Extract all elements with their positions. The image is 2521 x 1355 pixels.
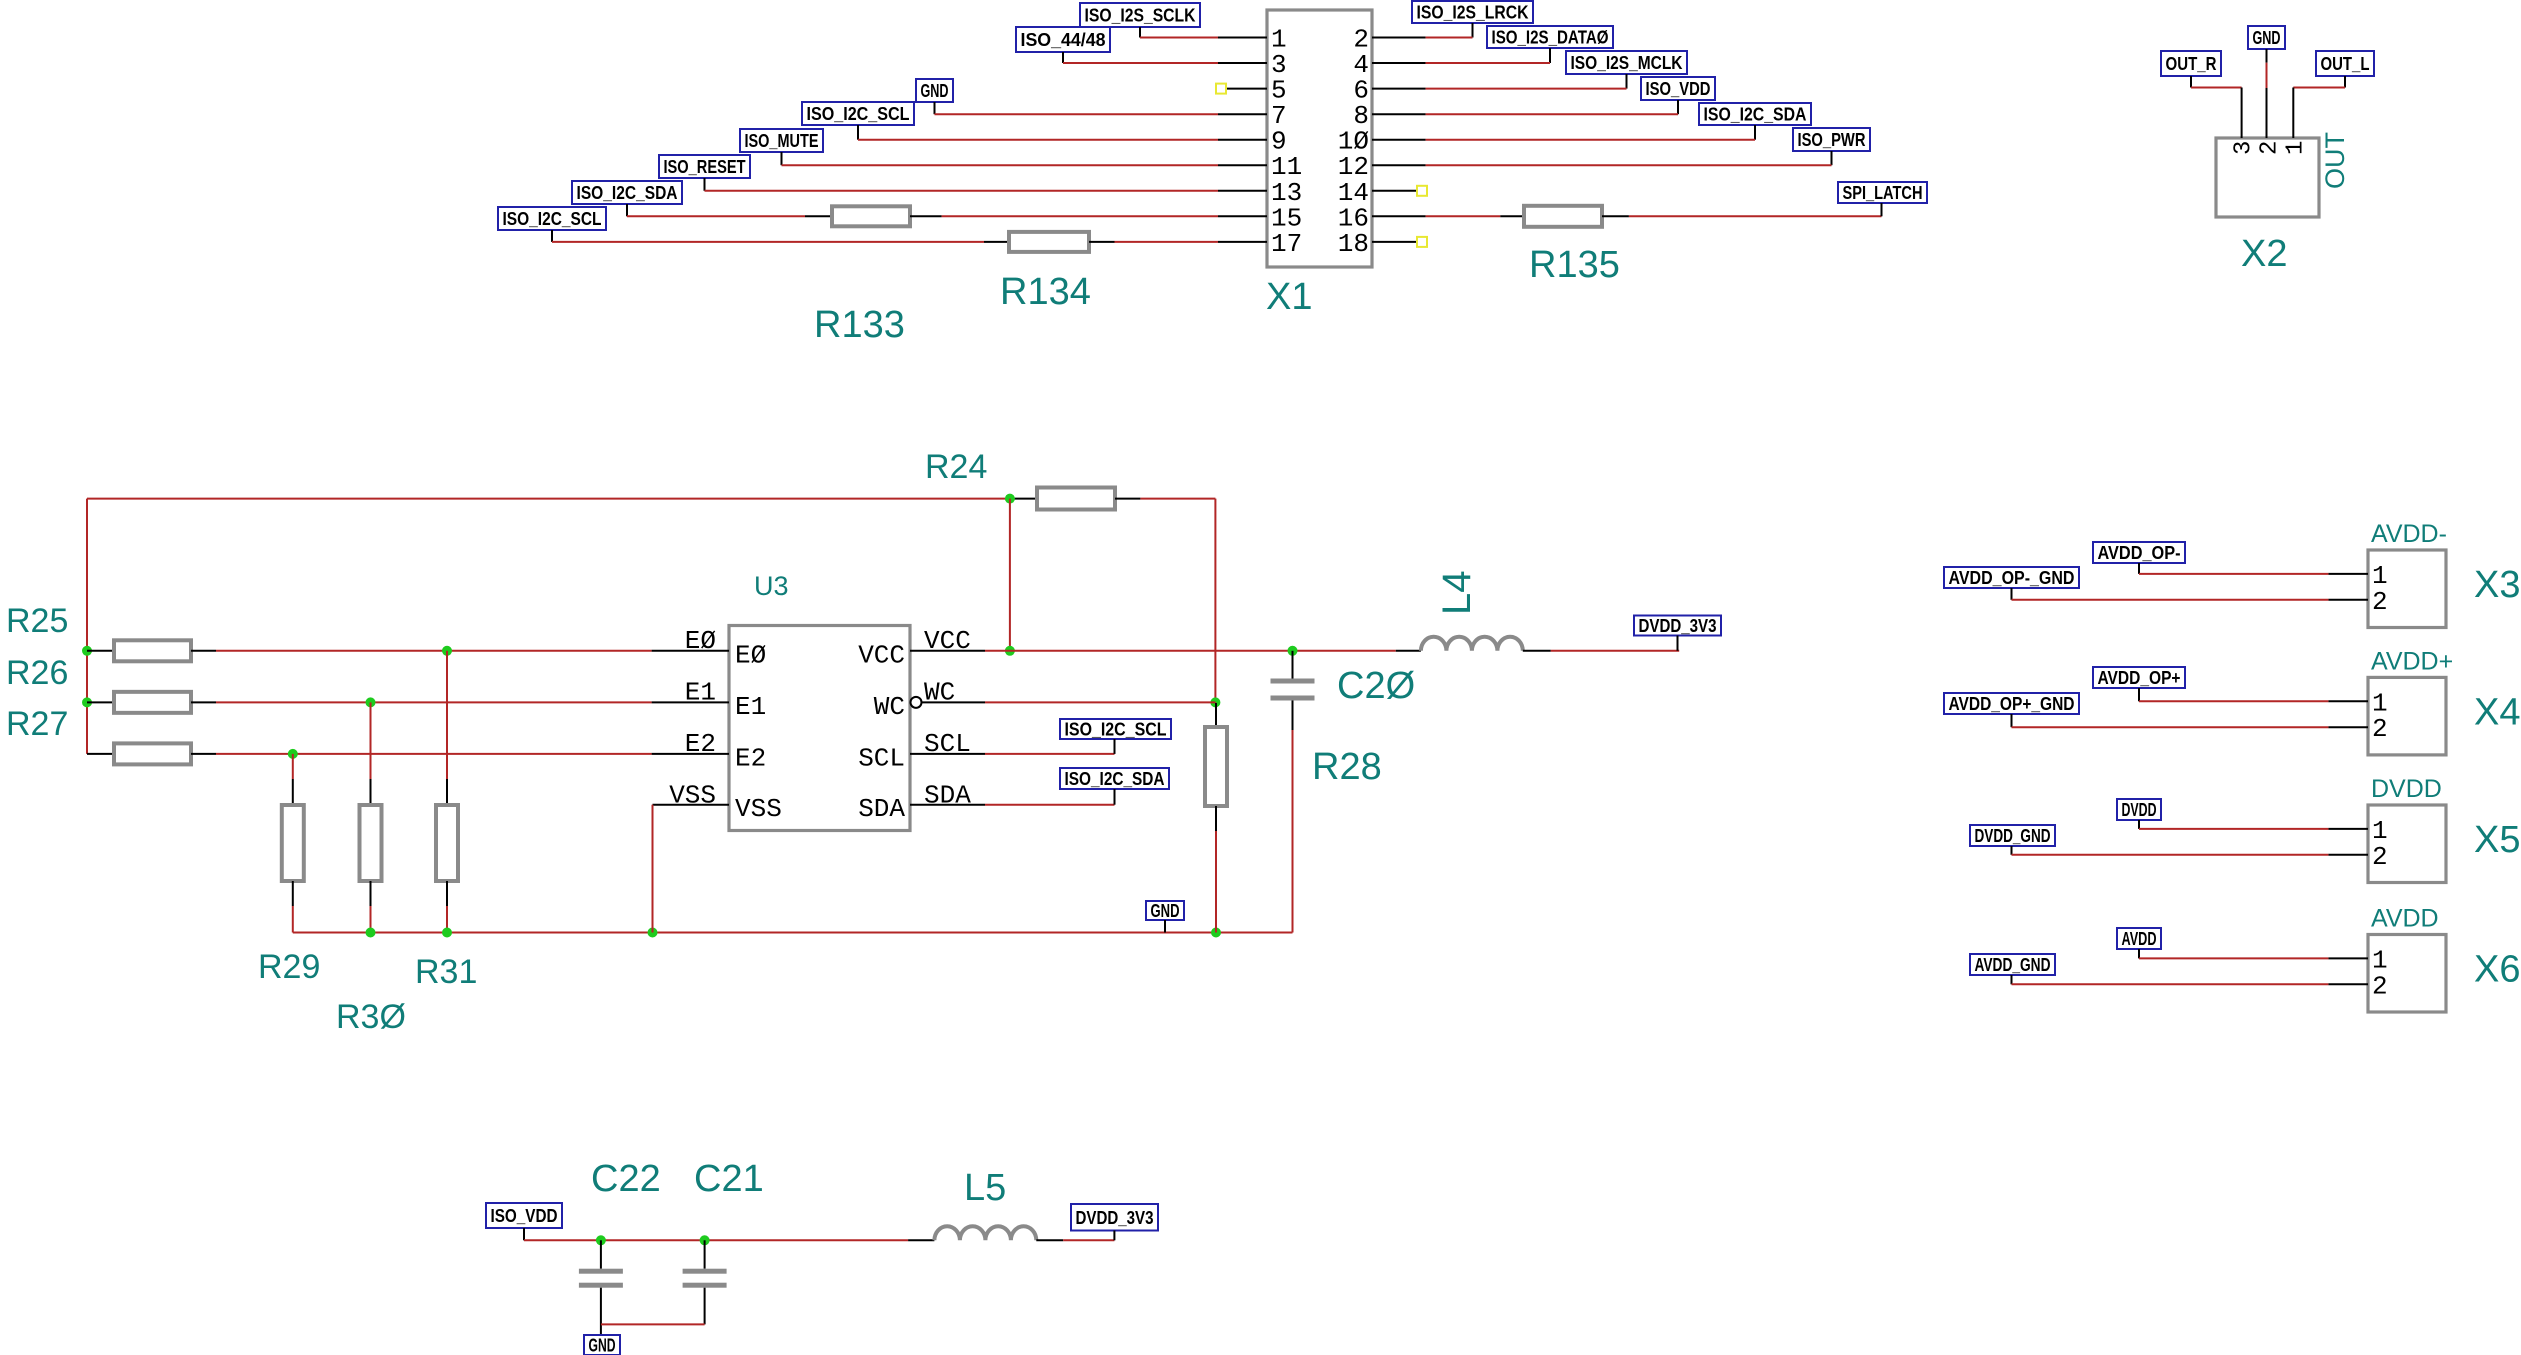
svg-text:ISO_I2C_SCL: ISO_I2C_SCL <box>1065 720 1167 740</box>
wire left vertical <box>86 499 88 754</box>
X1 pin numbers left column <box>1271 25 1302 259</box>
label stub ISO_I2C_SCL <box>1114 739 1116 754</box>
wire OUT_L to X2 pin 1 <box>2293 87 2345 89</box>
net label AVDD <box>2117 928 2161 949</box>
U3 left pin stubs <box>652 651 729 805</box>
net label DVDD_3V3 (mid) <box>1634 616 1721 636</box>
resistor R133 <box>805 215 832 217</box>
label stub ISO_I2C_SDA <box>1114 789 1116 805</box>
capacitor C20 <box>1288 646 1298 656</box>
X5 pin stubs <box>2328 829 2368 855</box>
svg-text:X6: X6 <box>2474 949 2520 991</box>
svg-text:VCC: VCC <box>858 640 905 670</box>
svg-text:E1: E1 <box>735 692 766 722</box>
svg-text:DVDD_3V3: DVDD_3V3 <box>1076 1208 1154 1228</box>
wire R133 to X1 pin 15 <box>942 215 1218 217</box>
wire X1 pin 10 to ISO_I2C_SDA <box>1426 139 1755 141</box>
svg-text:ISO_I2S_MCLK: ISO_I2S_MCLK <box>1571 53 1683 73</box>
net label ISO_RESET <box>659 155 750 178</box>
label stub AVDD_GND <box>2011 975 2013 984</box>
resistor R135 <box>1500 215 1524 217</box>
svg-text:R26: R26 <box>6 654 68 692</box>
resistor R24 <box>1010 498 1037 500</box>
label stub DVDD_3V3 bottom <box>1113 1231 1115 1241</box>
wire X1 pin 16 to R135 <box>1426 215 1501 217</box>
svg-text:ISO_PWR: ISO_PWR <box>1798 130 1866 150</box>
label stub ISO_VDD <box>523 1228 525 1240</box>
svg-text:AVDD_GND: AVDD_GND <box>1975 955 2051 975</box>
svg-text:ISO_I2C_SCL: ISO_I2C_SCL <box>503 209 602 229</box>
net label SPI_LATCH <box>1838 182 1927 203</box>
wire WC row <box>985 701 1215 703</box>
svg-text:X4: X4 <box>2474 691 2520 733</box>
net label ISO_I2S_SCLK <box>1080 3 1200 27</box>
wire AVDD to X6 pin 1 <box>2139 957 2328 959</box>
svg-text:VSS: VSS <box>669 781 716 811</box>
svg-text:3: 3 <box>2231 141 2258 155</box>
wire VSS down <box>652 805 654 933</box>
wire SCL row <box>985 753 1115 755</box>
svg-text:R31: R31 <box>415 953 477 991</box>
resistor R3Ø (vertical) <box>370 702 372 779</box>
inductor L5 <box>908 1239 934 1241</box>
wire E0 row <box>216 650 652 652</box>
svg-text:DVDD: DVDD <box>2371 775 2442 803</box>
junction R31 bottom <box>442 928 452 938</box>
X2 pin 3 stub <box>2241 88 2243 139</box>
X5 pin numbers <box>2372 816 2388 872</box>
svg-text:OUT_L: OUT_L <box>2321 54 2370 74</box>
junction R25 left <box>82 646 92 656</box>
label stub ISO_I2C_SDA <box>626 204 628 216</box>
wire ISO_I2S_SCLK to X1 pin 1 <box>1140 37 1218 39</box>
net label DVDD_GND <box>1970 825 2055 846</box>
svg-text:GND: GND <box>2253 28 2281 48</box>
svg-text:ISO_I2S_SCLK: ISO_I2S_SCLK <box>1085 6 1196 26</box>
svg-text:R27: R27 <box>6 705 68 743</box>
wire E1 row <box>216 701 652 703</box>
resistor R29 (vertical) <box>292 754 294 779</box>
svg-text:E2: E2 <box>735 743 766 773</box>
svg-text:2: 2 <box>2372 587 2388 617</box>
wire AVDD_OP+ to X4 pin 1 <box>2139 700 2328 702</box>
wire ISO_I2C_SCL to R134 <box>552 241 984 243</box>
net label ISO_I2C_SCL (pin 17) <box>498 207 606 230</box>
label stub AVDD_OP+_GND <box>2011 714 2013 727</box>
svg-text:R24: R24 <box>925 448 987 486</box>
net label OUT_L <box>2316 51 2374 76</box>
X1 pin 5 unconnected marker <box>1216 84 1226 94</box>
X3 pin stubs <box>2328 574 2368 600</box>
svg-text:OUT_R: OUT_R <box>2166 54 2217 74</box>
wire L5 to DVDD_3V3 <box>1063 1239 1114 1241</box>
label stub ISO_44/48 <box>1062 52 1064 63</box>
svg-text:C22: C22 <box>591 1158 661 1200</box>
label stub AVDD_OP-_GND <box>2011 588 2013 600</box>
resistor R134 <box>984 241 1009 243</box>
connector X5 <box>2368 805 2446 883</box>
connector X3 <box>2368 550 2446 628</box>
svg-text:R135: R135 <box>1529 244 1620 286</box>
svg-text:AVDD: AVDD <box>2371 905 2439 933</box>
svg-text:SCL: SCL <box>858 743 905 773</box>
wire X1 pin 2 to ISO_I2S_LRCK <box>1426 37 1473 39</box>
net label AVDD_OP- <box>2093 542 2185 563</box>
X1 right pin stubs <box>1372 38 1426 242</box>
net label AVDD_OP+ <box>2093 667 2185 688</box>
label stub ISO_I2S_MCLK <box>1626 74 1628 89</box>
svg-text:X2: X2 <box>2241 233 2287 275</box>
wire X1 pin 6 to ISO_I2S_MCLK <box>1426 88 1627 90</box>
net label AVDD_OP+_GND <box>1944 693 2079 714</box>
label stub ISO_MUTE <box>781 152 783 165</box>
svg-text:X5: X5 <box>2474 819 2520 861</box>
wire OUT_R to X2 pin 3 <box>2191 87 2242 89</box>
wire AVDD_OP+_GND to X4 pin 2 <box>2012 726 2329 728</box>
resistor R28 (vertical) <box>1214 701 1216 704</box>
label stub ISO_RESET <box>704 178 706 191</box>
label stub ISO_I2S_LRCK <box>1472 23 1474 38</box>
junction C22 <box>596 1235 606 1245</box>
junction VSS rail <box>648 928 658 938</box>
net label DVDD_3V3 (bottom) <box>1071 1204 1158 1231</box>
svg-text:AVDD_OP+_GND: AVDD_OP+_GND <box>1949 694 2075 714</box>
wire GND to X2 pin 2 <box>2266 63 2268 88</box>
net label ISO_I2C_SDA (pin 15) <box>572 181 682 204</box>
label stub ISO_I2C_SDA <box>1754 125 1756 140</box>
net label ISO_I2C_SCL (U3) <box>1060 719 1171 739</box>
net label ISO_VDD <box>1641 77 1715 100</box>
svg-text:1: 1 <box>2282 141 2309 155</box>
IC U3 <box>729 626 910 831</box>
junction VCC row <box>1005 646 1015 656</box>
X1 pin 14 unconnected marker <box>1417 186 1427 196</box>
label stub GND <box>1164 920 1166 933</box>
capacitor C21 <box>704 1240 706 1268</box>
ground rail wire <box>293 932 1293 934</box>
net label ISO_I2C_SCL <box>802 102 914 125</box>
X6 pin numbers <box>2372 945 2388 1001</box>
net label ISO_PWR <box>1793 128 1870 151</box>
label stub DVDD_3V3 <box>1677 636 1679 651</box>
resistor R26 <box>87 701 114 703</box>
net label ISO_I2S_DATA0 <box>1487 26 1613 48</box>
svg-text:AVDD-: AVDD- <box>2371 520 2447 548</box>
wire L4 to DVDD_3V3 <box>1551 650 1679 652</box>
connector X2 <box>2216 138 2319 217</box>
svg-text:ISO_I2S_DATAØ: ISO_I2S_DATAØ <box>1492 28 1609 48</box>
net label GND (bottom) <box>584 1335 620 1355</box>
svg-text:ISO_I2C_SDA: ISO_I2C_SDA <box>1065 769 1165 789</box>
U3 pin names inside <box>735 640 905 824</box>
svg-text:2: 2 <box>2372 714 2388 744</box>
X3 pin numbers <box>2372 561 2388 617</box>
wire AVDD_GND to X6 pin 2 <box>2012 983 2329 985</box>
label stub AVDD_OP+ <box>2138 688 2140 701</box>
wire E2 row <box>216 753 652 755</box>
net label ISO_I2S_LRCK <box>1412 1 1533 23</box>
svg-text:SDA: SDA <box>924 781 971 811</box>
wire ISO_RESET to X1 pin 13 <box>705 190 1219 192</box>
wire ISO_MUTE to X1 pin 11 <box>782 164 1219 166</box>
wire R24 left down to VCC <box>1009 499 1011 651</box>
net label ISO_MUTE <box>740 129 823 152</box>
svg-text:R28: R28 <box>1312 746 1382 788</box>
U3 WC inversion bubble <box>911 697 922 708</box>
X6 pin stubs <box>2328 958 2368 984</box>
U3 pin name labels outside <box>669 626 971 811</box>
net label GND (U3 rail) <box>1146 901 1184 920</box>
net label DVDD <box>2117 799 2161 820</box>
net label GND (X2) <box>2248 26 2285 49</box>
wire ISO_I2C_SDA to R133 <box>627 215 805 217</box>
svg-text:L5: L5 <box>964 1167 1006 1209</box>
wire SDA row <box>985 804 1115 806</box>
svg-text:ISO_RESET: ISO_RESET <box>664 157 746 177</box>
wire DVDD to X5 pin 1 <box>2139 828 2328 830</box>
svg-text:R133: R133 <box>814 304 905 346</box>
svg-text:SPI_LATCH: SPI_LATCH <box>1843 183 1923 203</box>
svg-text:ISO_MUTE: ISO_MUTE <box>745 131 819 151</box>
connector X4 <box>2368 677 2446 755</box>
junction R31 top <box>442 646 452 656</box>
connector X6 <box>2368 935 2446 1013</box>
svg-text:DVDD: DVDD <box>2122 800 2157 820</box>
svg-text:ISO_VDD: ISO_VDD <box>491 1206 558 1226</box>
svg-text:2: 2 <box>2256 141 2283 155</box>
junction R24 left <box>1005 494 1015 504</box>
label stub ISO_I2S_DATA0 <box>1549 48 1551 63</box>
connector X1 <box>1267 10 1372 267</box>
junction R26 left <box>82 697 92 707</box>
svg-text:AVDD_OP+: AVDD_OP+ <box>2098 668 2181 688</box>
wire VCC row <box>985 650 1396 652</box>
inductor L4 <box>1396 650 1421 652</box>
svg-text:DVDD_3V3: DVDD_3V3 <box>1639 616 1717 636</box>
wire C22-C21 ground link <box>601 1323 705 1325</box>
junction R28 bottom <box>1211 928 1221 938</box>
wire X1 pin 4 to ISO_I2S_DATA0 <box>1426 62 1550 64</box>
net label ISO_I2S_MCLK <box>1566 51 1687 74</box>
label stub GND <box>934 102 936 114</box>
resistor R31 (vertical) <box>446 651 448 779</box>
junction R30 top <box>366 697 376 707</box>
svg-text:X3: X3 <box>2474 564 2520 606</box>
svg-text:17: 17 <box>1271 229 1302 259</box>
wire R135 to SPI_LATCH <box>1629 215 1882 217</box>
svg-text:GND: GND <box>589 1336 616 1355</box>
svg-text:AVDD+: AVDD+ <box>2371 647 2453 675</box>
X2 pin 2 stub <box>2266 88 2268 138</box>
svg-text:ISO_44/48: ISO_44/48 <box>1021 30 1106 50</box>
junction R30 bottom <box>366 928 376 938</box>
svg-text:R3Ø: R3Ø <box>336 998 406 1036</box>
wire ISO_I2C_SCL to X1 pin 9 <box>858 139 1218 141</box>
svg-text:2: 2 <box>2372 971 2388 1001</box>
resistor R27 <box>87 753 114 755</box>
svg-text:R25: R25 <box>6 602 68 640</box>
svg-text:C21: C21 <box>694 1158 764 1200</box>
svg-text:AVDD: AVDD <box>2122 929 2157 949</box>
label stub ISO_I2S_SCLK <box>1139 27 1141 38</box>
wire X1 pin 12 to ISO_PWR <box>1426 164 1832 166</box>
resistor R25 <box>87 650 114 652</box>
label stub AVDD <box>2138 949 2140 958</box>
svg-text:OUT: OUT <box>2320 132 2350 189</box>
wire DVDD_GND to X5 pin 2 <box>2012 854 2329 856</box>
X2 pin 1 stub <box>2292 88 2294 139</box>
wire R24 right down <box>1140 498 1215 500</box>
label stub ISO_I2C_SCL <box>857 125 859 140</box>
svg-text:C2Ø: C2Ø <box>1337 665 1415 707</box>
svg-text:ISO_I2S_LRCK: ISO_I2S_LRCK <box>1417 3 1529 23</box>
label stub ISO_I2C_SCL <box>551 230 553 242</box>
junction R29 top <box>288 749 298 759</box>
svg-text:GND: GND <box>1151 901 1180 921</box>
junction WC row <box>1210 697 1220 707</box>
wire GND to X1 pin 7 <box>935 113 1219 115</box>
svg-text:ISO_I2C_SDA: ISO_I2C_SDA <box>1704 105 1807 125</box>
svg-text:AVDD_OP-: AVDD_OP- <box>2098 543 2181 563</box>
svg-text:WC: WC <box>874 692 905 722</box>
net label ISO_I2C_SDA (U3) <box>1060 768 1169 789</box>
wire R134 to X1 pin 17 <box>1115 241 1219 243</box>
label stub DVDD_GND <box>2011 846 2013 855</box>
net label ISO_I2C_SDA <box>1699 103 1811 125</box>
label stub SPI_LATCH <box>1881 203 1883 216</box>
svg-text:ISO_I2C_SDA: ISO_I2C_SDA <box>577 183 678 203</box>
label stub OUT_L <box>2344 76 2346 88</box>
svg-text:DVDD_GND: DVDD_GND <box>1975 826 2051 846</box>
svg-text:EØ: EØ <box>735 640 766 670</box>
net label AVDD_GND <box>1970 954 2055 975</box>
wire ISO_44/48 to X1 pin 3 <box>1063 62 1218 64</box>
junction C21 <box>700 1235 710 1245</box>
X1 left pin stubs <box>1218 38 1267 242</box>
U3 right pin stubs <box>910 651 985 805</box>
X4 pin numbers <box>2372 688 2388 744</box>
svg-text:AVDD_OP-_GND: AVDD_OP-_GND <box>1949 568 2075 588</box>
svg-text:R29: R29 <box>258 948 320 986</box>
net label ISO_44/48 <box>1016 27 1110 52</box>
svg-text:ISO_I2C_SCL: ISO_I2C_SCL <box>807 104 910 124</box>
svg-text:ISO_VDD: ISO_VDD <box>1646 79 1711 99</box>
label stub DVDD <box>2138 820 2140 829</box>
label stub GND <box>2266 49 2268 63</box>
X1 pin numbers right column <box>1338 25 1369 259</box>
capacitor C22 <box>600 1240 602 1268</box>
label stub ISO_VDD <box>1677 100 1679 114</box>
svg-text:U3: U3 <box>754 571 789 601</box>
svg-text:L4: L4 <box>1435 571 1479 616</box>
svg-text:SDA: SDA <box>858 794 905 824</box>
svg-text:2: 2 <box>2372 842 2388 872</box>
wire X1 pin 8 to ISO_VDD <box>1426 113 1678 115</box>
wire VCC top branch <box>87 498 1010 500</box>
net label GND <box>916 79 953 102</box>
wire AVDD_OP- to X3 pin 1 <box>2139 573 2328 575</box>
wire ISO_VDD rail <box>524 1239 908 1241</box>
svg-text:X1: X1 <box>1266 276 1312 318</box>
svg-text:18: 18 <box>1338 229 1369 259</box>
label stub ISO_PWR <box>1831 151 1833 165</box>
net label ISO_VDD (bottom) <box>486 1203 562 1228</box>
X4 pin stubs <box>2328 701 2368 727</box>
X1 pin 18 unconnected marker <box>1417 237 1427 247</box>
label stub AVDD_OP- <box>2138 563 2140 574</box>
label stub OUT_R <box>2190 76 2192 88</box>
svg-text:VSS: VSS <box>735 794 782 824</box>
svg-text:R134: R134 <box>1000 271 1091 313</box>
net label AVDD_OP-_GND <box>1944 567 2079 588</box>
svg-text:GND: GND <box>921 81 949 101</box>
net label OUT_R <box>2161 51 2221 76</box>
wire AVDD_OP-_GND to X3 pin 2 <box>2012 599 2329 601</box>
